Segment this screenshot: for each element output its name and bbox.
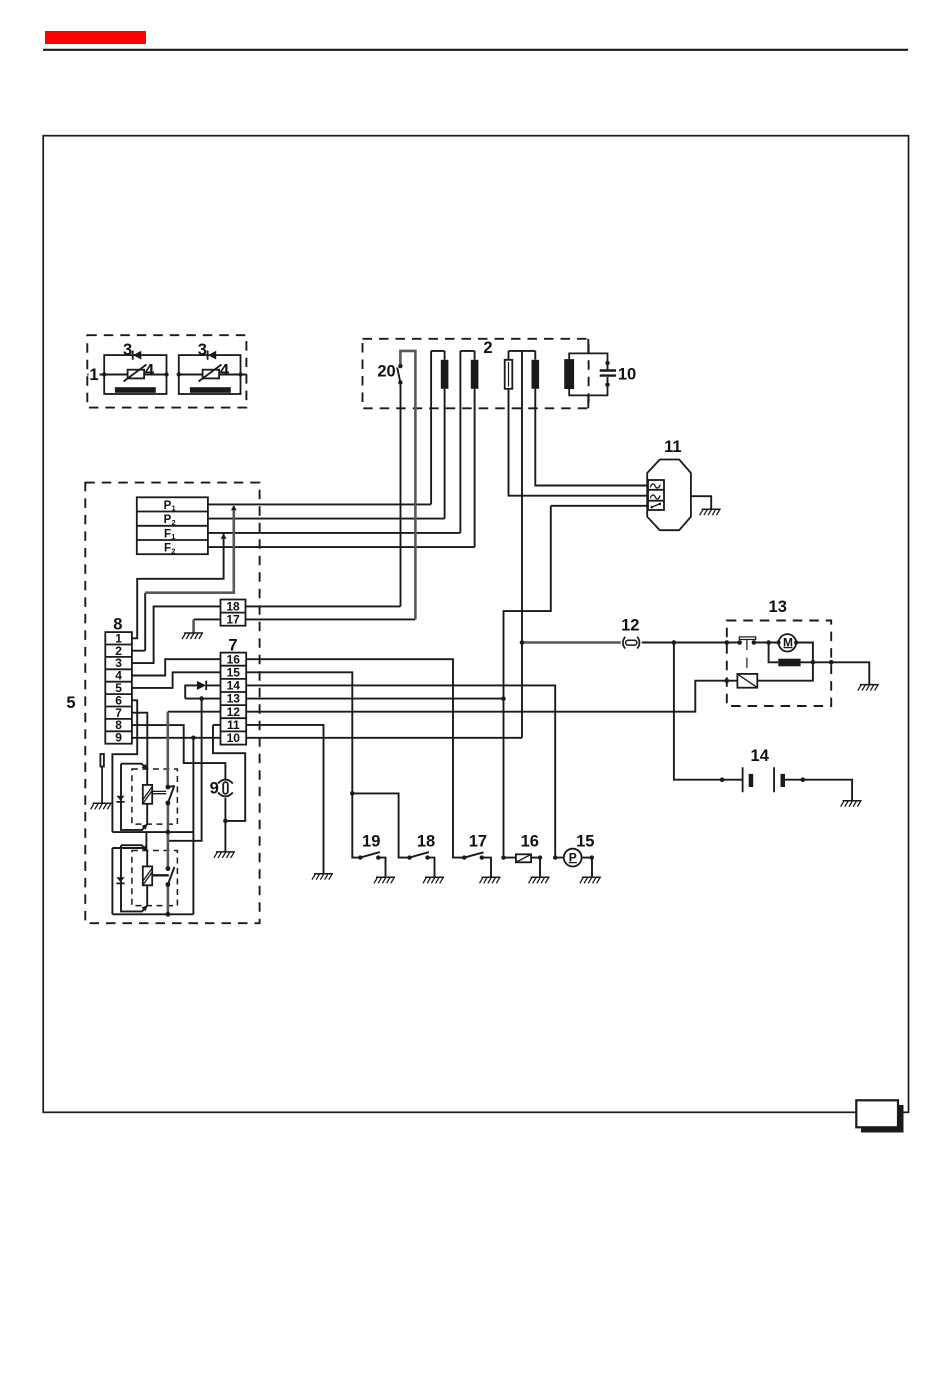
svg-text:20: 20 (377, 362, 395, 380)
svg-text:12: 12 (227, 705, 241, 719)
svg-text:1: 1 (89, 366, 98, 384)
svg-text:10: 10 (618, 365, 636, 383)
svg-text:18: 18 (417, 832, 435, 850)
svg-text:2: 2 (172, 518, 176, 527)
svg-text:5: 5 (66, 694, 75, 712)
svg-text:16: 16 (227, 652, 241, 666)
svg-text:10: 10 (227, 731, 241, 745)
svg-text:2: 2 (483, 339, 492, 357)
svg-text:P: P (164, 500, 172, 512)
svg-text:11: 11 (664, 438, 681, 456)
svg-text:3: 3 (198, 341, 207, 359)
svg-text:1: 1 (172, 504, 176, 513)
svg-text:F: F (164, 543, 171, 555)
svg-text:19: 19 (362, 832, 380, 850)
svg-text:1: 1 (171, 532, 175, 541)
svg-text:17: 17 (226, 613, 240, 627)
svg-text:16: 16 (521, 832, 539, 850)
svg-text:14: 14 (751, 747, 770, 765)
svg-text:13: 13 (227, 692, 241, 706)
svg-text:P: P (164, 514, 172, 526)
svg-text:9: 9 (210, 780, 219, 798)
svg-text:M: M (783, 636, 793, 650)
svg-text:12: 12 (621, 616, 639, 634)
svg-text:F: F (164, 529, 171, 541)
svg-text:13: 13 (769, 598, 787, 616)
svg-text:11: 11 (227, 718, 240, 732)
svg-text:15: 15 (227, 665, 241, 679)
svg-text:14: 14 (227, 679, 241, 693)
svg-text:15: 15 (576, 832, 594, 850)
svg-text:P: P (569, 850, 577, 864)
svg-text:4: 4 (145, 361, 155, 379)
svg-text:18: 18 (226, 600, 240, 614)
svg-text:3: 3 (123, 341, 132, 359)
svg-text:17: 17 (469, 832, 487, 850)
svg-text:2: 2 (171, 546, 175, 555)
svg-text:9: 9 (115, 731, 122, 745)
svg-text:4: 4 (220, 361, 230, 379)
